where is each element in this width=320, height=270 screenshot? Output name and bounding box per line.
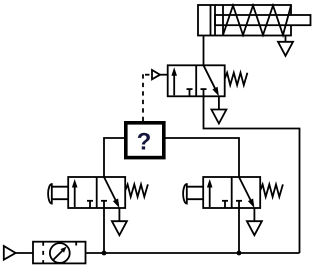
svg-text:?: ?	[137, 129, 152, 156]
